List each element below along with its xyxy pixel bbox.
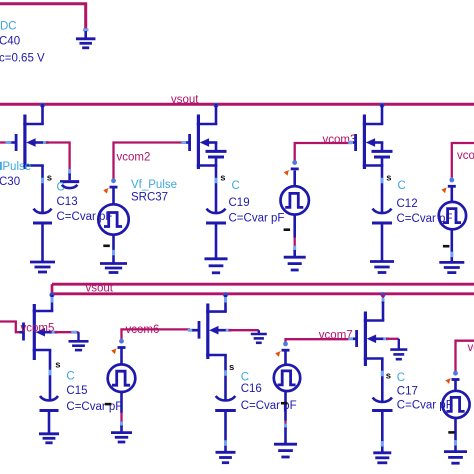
wire: cap to ground — [381, 412, 384, 453]
ground (M7 bulk) — [398, 339, 400, 350]
transistor M3 (NMOS varactor, row1 cell3) — [381, 104, 384, 124]
wire: minus to ground — [284, 421, 286, 426]
wire: SRC38 minus to ground — [294, 238, 296, 248]
svg-text:vcom2: vcom2 — [117, 151, 151, 163]
node: DC net pin tick — [83, 28, 89, 31]
wire: cap to ground — [381, 225, 384, 262]
svg-text:s: s — [47, 173, 52, 184]
svg-text:c=0.65 V: c=0.65 V — [0, 53, 45, 65]
wire: cap to ground — [48, 412, 51, 434]
ground (row1 cell2 source cap) — [205, 257, 228, 260]
svg-text:SRC37: SRC37 — [131, 192, 168, 204]
capacitor C16 (M6 source varactor) — [216, 396, 236, 401]
node junction on row2 rail (M6 drain) — [223, 292, 228, 297]
ground (SRC37) — [100, 262, 127, 265]
source Vf_Pulse SRC37 — [111, 178, 116, 183]
wire: M5 source lead — [49, 350, 52, 400]
wire: vsout rail (row 2, lower line) — [52, 292, 474, 295]
node junction on row2 rail (M7 drain) — [381, 292, 386, 297]
ground (vcom7 driver) — [274, 443, 297, 446]
svg-text:C=Cvar pF: C=Cvar pF — [57, 211, 113, 223]
ground (below V_DC wire) — [84, 31, 87, 39]
svg-text:C: C — [241, 371, 249, 383]
wire: vcom6 net from pulse source to M6 gate — [122, 329, 191, 340]
svg-text:C: C — [232, 180, 240, 192]
capacitor (M1 source varactor) — [34, 209, 52, 214]
node junction on vsout rail (M1 drain) — [40, 103, 45, 108]
wire: M2 source lead — [215, 166, 218, 213]
svg-text:vcom3: vcom3 — [323, 134, 357, 146]
transistor M5 (NMOS, row2 cell1) — [51, 295, 54, 311]
svg-text:vcom4: vcom4 — [457, 150, 474, 162]
wire: cap to ground — [224, 412, 227, 452]
wire: vsout rail (row 2, upper return line) — [52, 283, 474, 286]
ground (vcom6 driver) — [111, 431, 132, 434]
capacitor C19 (M2 source varactor) — [207, 209, 226, 214]
svg-text:C=Cvar pF: C=Cvar pF — [241, 400, 297, 412]
svg-text:C12: C12 — [397, 198, 418, 210]
wire: M3 source lead — [381, 166, 384, 213]
wire: M7 source lead — [381, 359, 384, 402]
wire: gate stub from Vt_Pulse SRC30 (cut at left edge) — [0, 141, 11, 143]
svg-text:C19: C19 — [229, 197, 250, 209]
label minus (vcom6 driver) — [105, 403, 112, 406]
svg-text:DC: DC — [0, 20, 17, 32]
wire: vcom8 net from pulse source (cut at right edge) — [456, 341, 474, 372]
node junction on row2 rail (M5 drain) — [50, 292, 55, 297]
transistor M6 (NMOS, row2 cell2) — [224, 295, 227, 312]
svg-text:Pulse: Pulse — [2, 161, 31, 173]
ground (M5 bulk) — [77, 332, 79, 341]
ground (SRC39) — [439, 261, 464, 264]
svg-text:s: s — [386, 173, 391, 184]
wire: vcom4 net from SRC39 (cut at right edge) — [452, 143, 474, 178]
svg-text:C30: C30 — [0, 176, 20, 188]
svg-text:s: s — [55, 360, 60, 371]
ground (row2 cell3 source cap) — [373, 451, 391, 454]
svg-text:vcom5: vcom5 — [21, 322, 55, 334]
wire: vcom7 net from pulse source to M7 gate — [286, 339, 349, 342]
source Vf_Pulse (vcom6 driver) — [119, 339, 124, 344]
svg-text:s: s — [386, 370, 391, 381]
svg-text:C: C — [66, 371, 74, 383]
wire: vsout rail (row 1) — [0, 103, 474, 106]
ground (row1 cell3 source cap) — [370, 260, 394, 263]
wire: M6 source lead — [224, 355, 227, 400]
label minus (vcom8 driver) — [448, 431, 455, 434]
wire: M7 bulk to ground — [383, 337, 389, 340]
svg-text:s: s — [220, 173, 225, 184]
svg-text:C13: C13 — [57, 196, 78, 208]
svg-text:C15: C15 — [66, 385, 87, 397]
node junction on vsout rail (M2 drain) — [214, 103, 219, 108]
label minus (SRC38) — [284, 228, 291, 231]
labels Vt_Pulse SRC30 (cut at left edge) — [0, 162, 2, 170]
transistor M1 (NMOS varactor, row1 cell1) — [41, 104, 44, 124]
transistor M2 (NMOS varactor, row1 cell2) — [215, 104, 218, 124]
node junction on vsout rail (M3 drain) — [380, 103, 385, 108]
source Vf_Pulse SRC38 — [292, 160, 297, 165]
capacitor C17 (M7 source varactor) — [373, 398, 392, 403]
wire: minus to ground — [120, 413, 122, 423]
wire: rail left connector — [51, 284, 54, 294]
svg-text:s: s — [229, 362, 234, 373]
svg-text:C17: C17 — [397, 386, 418, 398]
label minus (SRC39) — [443, 245, 450, 248]
ground (vcom8 driver) — [444, 450, 467, 453]
svg-text:C=Cvar pF: C=Cvar pF — [229, 213, 285, 225]
svg-text:Vf_Pulse: Vf_Pulse — [131, 179, 177, 191]
wire: cap to ground — [215, 225, 218, 259]
svg-text:C16: C16 — [241, 383, 262, 395]
source Vf_Pulse (vcom7 driver) — [283, 342, 288, 347]
svg-text:C: C — [57, 182, 65, 194]
wire: vcom3 net from SRC38 to M3 gate — [295, 143, 352, 162]
wire: M6 bulk to ground — [226, 329, 232, 332]
wire: cap to ground — [41, 225, 44, 262]
capacitor C13 (varactor on M1 bulk) — [68, 174, 71, 181]
wire: M1 source lead — [41, 166, 44, 213]
ground (row1 cell1 source cap) — [30, 261, 55, 264]
svg-text:C: C — [398, 180, 406, 192]
capacitor C15 (M5 source varactor) — [40, 396, 58, 401]
svg-text:C=Cvar pF: C=Cvar pF — [66, 401, 122, 413]
wire: M5 bulk to ground — [52, 331, 58, 334]
ground (row2 cell2 source cap) — [216, 451, 236, 454]
svg-text:vcom7: vcom7 — [319, 329, 353, 341]
label minus (vcom7 driver) — [281, 402, 288, 405]
svg-text:C: C — [397, 372, 405, 384]
wire: V_DC output net (top left) — [0, 4, 86, 29]
wire: M7 drain stub — [382, 295, 384, 300]
wire: vcom5 gate net (cut at left edge) — [0, 322, 20, 333]
wire: vcom2 net from SRC37 to M2 gate — [114, 143, 182, 180]
svg-text:vsout: vsout — [86, 282, 114, 294]
svg-text:vcom6: vcom6 — [126, 324, 160, 336]
source Vf_Pulse SRC39 — [449, 178, 454, 183]
label minus (SRC37) — [103, 245, 110, 248]
ground (row2 cell1 source cap) — [39, 432, 59, 435]
svg-text:vsout: vsout — [171, 94, 199, 106]
ground (M6 bulk) — [258, 330, 260, 334]
svg-text:vcom8: vcom8 — [468, 342, 474, 354]
source Vf_Pulse (vcom8 driver) — [453, 371, 458, 376]
ground (SRC38) — [284, 256, 306, 259]
capacitor C12 (M3 source varactor) — [373, 209, 392, 214]
transistor M7 (NMOS, row2 cell3) — [382, 302, 385, 321]
wire: M1 bulk to C13 — [43, 141, 49, 144]
svg-text:C40: C40 — [0, 36, 20, 48]
